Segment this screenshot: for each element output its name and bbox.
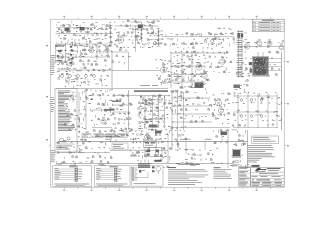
right interconnect components (213, 130, 214, 133)
reverb label (112, 101, 121, 102)
tremolo grid wires (171, 52, 228, 54)
footer note (168, 183, 195, 186)
cathode chain parts (70, 46, 72, 48)
pin wires left (97, 168, 115, 170)
switch area components (111, 129, 113, 132)
bias pot parts (139, 170, 141, 173)
tube V2 (118, 37, 124, 43)
oscillator blob (238, 33, 240, 38)
pi mid components (186, 91, 188, 94)
tube V1 (89, 48, 94, 53)
trem intensity components (130, 130, 132, 132)
mid vertical wire (135, 26, 137, 52)
power tube V8b (267, 41, 272, 46)
heater label boxes (82, 133, 91, 137)
input stage components (56, 24, 57, 27)
Fender logo script (255, 168, 266, 171)
junction dots (238, 96, 239, 97)
first stage wires (96, 45, 98, 60)
chart bottom text (134, 182, 156, 185)
ot secondary wires (250, 58, 254, 60)
under frame labels (57, 21, 59, 24)
production notes (168, 167, 176, 168)
label strip (104, 109, 115, 111)
loop wires (111, 51, 113, 89)
heater labels (70, 164, 76, 167)
ps dark bar (155, 160, 162, 162)
ps vertical wires (247, 130, 249, 168)
input chain wire (110, 25, 112, 42)
vibrato switch box (112, 143, 128, 150)
output matrix mid components (233, 102, 234, 103)
tube V4 (161, 67, 167, 73)
tube V6 (202, 73, 207, 78)
screen grid components (239, 75, 241, 78)
mixer components (218, 27, 220, 30)
tube V13 (218, 108, 223, 113)
tube V9 (279, 45, 284, 50)
tube V3 (67, 60, 73, 66)
tube chart bottom text (54, 183, 89, 186)
top mid wire (162, 36, 234, 38)
mid-left components (81, 91, 83, 94)
input box (55, 45, 65, 62)
pi right components (212, 94, 214, 97)
power tube row wire (238, 46, 284, 48)
bias ladder wires (238, 30, 240, 78)
tube V14 (101, 119, 106, 124)
ac input components (232, 155, 233, 158)
tremolo cluster components (170, 51, 171, 54)
loop components (110, 51, 112, 52)
tube V11 (157, 97, 162, 102)
pi left components (172, 91, 174, 94)
pin labels right (78, 168, 82, 171)
reverb mix components (176, 33, 178, 36)
speaker jack blob (221, 132, 228, 136)
ac switch (236, 160, 239, 163)
schematic number row (252, 182, 261, 183)
output tube marks (152, 166, 155, 168)
pt upper components (232, 129, 235, 131)
top stub wire (130, 21, 142, 23)
zone letters left margin (46, 45, 48, 46)
tube chart bottom text (96, 183, 128, 186)
ps caption text (139, 162, 152, 165)
panel parts (65, 95, 67, 97)
tube socket chart box 1 (53, 166, 92, 187)
tube V1b (105, 48, 109, 52)
first tube row components (58, 43, 60, 46)
panel switch circuit (71, 91, 76, 93)
fuse (241, 143, 243, 145)
power supply components (130, 149, 132, 152)
vibrato input components (114, 22, 115, 23)
interconnect components (170, 129, 172, 132)
potentiometers (61, 75, 64, 78)
tube V10 (146, 100, 152, 106)
B+ rail wire (58, 140, 249, 142)
zone numbers bottom margin (63, 190, 65, 191)
preamp right components (88, 50, 90, 51)
output jacks (240, 99, 243, 102)
input jack J2 (80, 27, 85, 30)
tube V8 (244, 44, 249, 49)
vibrato chain wire (141, 22, 143, 42)
notes list (248, 144, 273, 147)
left pin column (132, 168, 134, 169)
rail top components (78, 131, 80, 134)
reverb driver components (155, 58, 156, 61)
rail annotation (95, 134, 118, 137)
zone numbers top margin (63, 16, 65, 17)
company name text (267, 168, 281, 169)
tone chain wire (158, 28, 160, 46)
mid components (91, 110, 93, 113)
tube pin spine (114, 168, 116, 182)
first stage components (92, 47, 94, 48)
output matrix wires (233, 95, 278, 97)
reverb tank label (140, 84, 150, 87)
vibrato channel bus wire (115, 25, 159, 27)
trem dark bits2 (155, 131, 162, 134)
mid field components (86, 89, 88, 92)
pin wires left (55, 168, 75, 170)
ps loop box (145, 148, 162, 157)
input jack J1 (65, 28, 70, 32)
input chain capacitors (109, 27, 111, 29)
mid wires (78, 92, 80, 128)
preamp cluster components (56, 50, 58, 51)
ot right components (269, 51, 271, 54)
tube V7 (220, 59, 225, 64)
rectifier tube V15 (145, 134, 151, 140)
coupling blob (138, 25, 143, 29)
tube V5 (196, 64, 202, 70)
output tube chart box (132, 166, 164, 186)
bias ladder rungs (237, 30, 243, 33)
power tube components (239, 41, 240, 44)
foot switch box (144, 141, 157, 148)
oscillator components (140, 96, 142, 97)
bias text row (178, 163, 200, 166)
chart wires (134, 177, 148, 179)
input bus wire (56, 33, 114, 35)
ladder side labels (245, 32, 247, 35)
margin zone text (51, 54, 56, 57)
zone letters right margin (287, 61, 289, 62)
heater area components (57, 152, 59, 155)
pin labels right (118, 168, 122, 171)
output matrix bottom components (233, 114, 235, 117)
B+ labels (80, 138, 87, 141)
bias board blob (234, 85, 241, 89)
left lower wire (58, 152, 111, 154)
power transformer T2 (233, 150, 240, 157)
driver components (206, 51, 208, 54)
tone chain capacitors (157, 30, 159, 32)
ps chain components (163, 147, 165, 150)
address text (259, 172, 278, 175)
title row (252, 179, 254, 180)
title block (251, 168, 285, 187)
osc chain components (140, 96, 142, 99)
output transformer T1 (253, 57, 268, 76)
vibrato chain capacitors (140, 29, 142, 31)
drawn approved row (252, 175, 258, 178)
output matrix top components (233, 92, 236, 94)
control panel box (55, 89, 77, 153)
voltage chart heading (134, 90, 168, 92)
tube socket chart box 2 (95, 166, 131, 187)
tube base circle (156, 167, 161, 172)
heater rail wire (58, 163, 233, 165)
right bus wire (281, 52, 283, 130)
osc left components (113, 94, 115, 97)
important notice block (138, 162, 149, 165)
tremolo dark cluster (195, 83, 204, 89)
annotation row (176, 162, 178, 165)
oscillator wires (113, 95, 168, 97)
preamp rail wires (57, 56, 110, 58)
tube pin spine (74, 168, 76, 182)
tube V12 (216, 100, 222, 106)
aux top wires (56, 27, 96, 29)
revision table (252, 19, 284, 31)
bias supply components (186, 148, 188, 151)
lower mid rail wire (110, 149, 168, 151)
osc dark bits (149, 125, 158, 128)
line cord blob (252, 165, 260, 167)
notes box (252, 136, 279, 143)
left lower components (56, 142, 58, 145)
pilot lamp circuit (60, 138, 64, 142)
phase inverter wires (171, 92, 173, 150)
tone stack components (160, 33, 162, 36)
ot left components (236, 61, 238, 64)
power tube V8a (257, 41, 262, 46)
